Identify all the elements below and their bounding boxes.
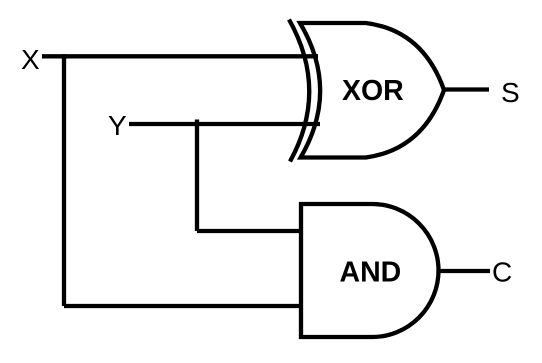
wire Y branch vertical [195,120,199,232]
wire AND output to C [439,269,491,273]
xor-gate U1 outer input arc [289,20,309,162]
wire Y branch to AND top input [197,229,301,233]
and-gate U2 body [301,204,439,337]
wire X branch vertical [62,54,66,306]
wire Y input horizontal [129,122,320,126]
xor-gate U1 body [300,23,444,158]
svg-text:X: X [21,44,40,75]
svg-text:XOR: XOR [342,75,404,107]
wire XOR output to S [444,87,489,91]
svg-text:S: S [501,77,520,108]
svg-text:AND: AND [340,257,402,289]
svg-text:Y: Y [108,110,127,141]
svg-text:C: C [492,257,512,288]
wire X input horizontal [42,54,318,58]
wire X branch to AND bottom input [64,304,301,308]
